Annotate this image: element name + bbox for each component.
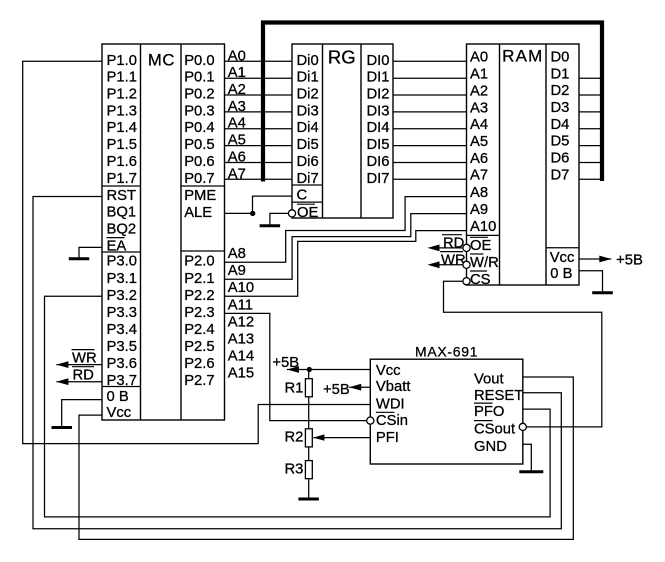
pin label P1.3	[107, 103, 137, 119]
wire RAM 0V to ground	[579, 271, 603, 291]
wire DI0 from RG to RAM A0	[393, 60, 467, 62]
wire P2.3/A11 from MC to CSin of MAX-691	[225, 313, 367, 420]
svg-text:WR: WR	[441, 252, 466, 268]
wire P0.6/A6 from MC to RG Di6	[225, 162, 293, 164]
svg-text:P3.5: P3.5	[107, 339, 137, 355]
svg-text:A1: A1	[470, 67, 488, 83]
register RG block outline	[292, 44, 393, 218]
pin label P1.6	[107, 154, 137, 170]
svg-text:+5B: +5B	[272, 355, 299, 371]
wire P0.1/A1 from MC to RG Di1	[225, 77, 293, 79]
data bus (thick line) from RG inputs to RAM data pins	[263, 23, 602, 182]
pin label P0.1	[184, 70, 214, 86]
address label A7	[228, 166, 246, 182]
wire D1 from RAM to data bus	[579, 77, 602, 79]
ground at EA	[69, 255, 89, 259]
signal label WR (active low)	[440, 252, 466, 269]
pin label D3	[551, 100, 570, 116]
pin label A7 (RAM)	[470, 168, 488, 184]
address label A0	[228, 48, 246, 64]
svg-text:P3.1: P3.1	[107, 271, 137, 287]
pin label P1.2	[107, 87, 137, 103]
wire D2 from RAM to data bus	[579, 94, 602, 96]
pin label W/R of RAM (W active low)	[470, 254, 499, 271]
svg-text:BQ2: BQ2	[107, 222, 137, 238]
svg-text:P3.0: P3.0	[107, 254, 137, 270]
pin label A9 (RAM)	[470, 202, 488, 218]
svg-text:P1.0: P1.0	[107, 53, 137, 69]
pin label P2.2	[184, 288, 214, 304]
svg-text:W/R: W/R	[470, 255, 499, 271]
svg-text:DI1: DI1	[367, 70, 390, 86]
pin label P2.6	[184, 356, 214, 372]
wire DI4 from RG to RAM A4	[393, 128, 467, 130]
RAM block outline	[467, 44, 580, 285]
pin label A3 (RAM)	[470, 100, 488, 116]
wire P2.0/A8 from MC to RAM A8	[225, 197, 467, 263]
svg-text:MC: MC	[148, 51, 175, 70]
svg-text:GND: GND	[474, 439, 507, 455]
address label A5	[228, 133, 246, 149]
svg-text:P2.2: P2.2	[184, 288, 214, 304]
svg-text:Vcc: Vcc	[550, 250, 575, 266]
power label +5B (RAM Vcc)	[616, 253, 643, 269]
pin label DI2	[367, 87, 390, 103]
pin label P1.5	[107, 137, 137, 153]
pin circle CSout	[519, 423, 526, 430]
svg-text:EA: EA	[107, 238, 127, 254]
svg-text:P3.3: P3.3	[107, 305, 137, 321]
svg-text:P0.4: P0.4	[184, 120, 214, 136]
svg-text:A4: A4	[228, 116, 246, 132]
ground at RAM 0V	[592, 291, 613, 293]
pin label Di2	[297, 87, 319, 103]
svg-text:P2.5: P2.5	[184, 339, 214, 355]
pin label GND	[474, 439, 507, 455]
svg-text:P1.6: P1.6	[107, 154, 137, 170]
pin label BQ2	[107, 222, 137, 238]
svg-text:D7: D7	[551, 167, 570, 183]
pin label DI4	[367, 120, 390, 136]
pin label Vcc (MAX-691)	[376, 363, 401, 379]
svg-text:A10: A10	[470, 219, 496, 235]
wire RAM CS to MAX-691 CSout	[444, 281, 602, 427]
pin label P3.3	[107, 305, 137, 321]
pin label PME	[184, 188, 216, 204]
wire DI3 from RG to RAM A3	[393, 111, 467, 113]
wire R1 top to Vcc junction	[308, 370, 310, 379]
wire P2.2/A10 from MC to RAM A10	[225, 231, 467, 297]
supervisor U1 MAX-691 block outline	[370, 359, 523, 464]
svg-text:D2: D2	[551, 83, 570, 99]
svg-text:DI0: DI0	[367, 53, 390, 69]
svg-text:D1: D1	[551, 66, 570, 82]
pin label P0.4	[184, 120, 214, 136]
pin label Di0	[297, 53, 319, 69]
address label A10	[228, 280, 254, 296]
svg-text:P2.0: P2.0	[184, 254, 214, 270]
wire P0.5/A5 from MC to RG Di5	[225, 145, 293, 147]
pin label P2.5	[184, 339, 214, 355]
svg-text:A2: A2	[470, 83, 488, 99]
wire DI6 from RG to RAM A6	[393, 162, 467, 164]
wire RAM Vcc to +5V	[579, 256, 611, 263]
resistor R2	[305, 429, 312, 447]
pin label P0.5	[184, 137, 214, 153]
svg-text:A8: A8	[228, 246, 246, 262]
address label A1	[228, 65, 246, 81]
pin label CS of RAM (active low)	[470, 271, 491, 288]
pin label P1.4	[107, 120, 137, 136]
pin label A5 (RAM)	[470, 134, 488, 150]
svg-text:P1.5: P1.5	[107, 137, 137, 153]
address label A15	[228, 366, 254, 382]
svg-text:A1: A1	[228, 65, 246, 81]
svg-text:D0: D0	[551, 49, 570, 65]
pin label P3.4	[107, 322, 137, 338]
address label A6	[228, 150, 246, 166]
svg-text:Vbatt: Vbatt	[376, 379, 411, 395]
pin label OE of RAM (active low)	[470, 237, 492, 254]
svg-text:Di3: Di3	[297, 103, 319, 119]
pin label A6 (RAM)	[470, 151, 488, 167]
wire R2 bottom to R3 top	[308, 447, 310, 461]
pin label P3.5	[107, 339, 137, 355]
svg-text:DI6: DI6	[367, 154, 390, 170]
svg-text:R1: R1	[285, 381, 304, 397]
pin circle OE of RG	[288, 210, 295, 217]
svg-text:A2: A2	[228, 82, 246, 98]
svg-text:P1.7: P1.7	[107, 171, 137, 187]
svg-text:+5B: +5B	[616, 253, 643, 269]
svg-text:A10: A10	[228, 280, 254, 296]
pin circle CS of RAM	[463, 278, 470, 285]
label R3	[285, 462, 304, 478]
svg-text:PME: PME	[184, 188, 216, 204]
wire OE of RG to ground	[270, 213, 289, 221]
pin label P0.6	[184, 154, 214, 170]
svg-text:Vcc: Vcc	[107, 405, 132, 421]
pin label P1.7	[107, 171, 137, 187]
svg-text:A13: A13	[228, 332, 254, 348]
pin label P3.7	[107, 373, 137, 389]
wire GND of MAX-691 to ground	[523, 444, 532, 468]
svg-text:A3: A3	[470, 100, 488, 116]
pin label P2.3	[184, 305, 214, 321]
svg-text:WDI: WDI	[376, 396, 405, 412]
pin label DI3	[367, 103, 390, 119]
svg-text:P0.1: P0.1	[184, 70, 214, 86]
svg-text:P0.7: P0.7	[184, 171, 214, 187]
svg-text:P1.4: P1.4	[107, 120, 137, 136]
svg-text:A5: A5	[470, 134, 488, 150]
pin label P0.7	[184, 171, 214, 187]
svg-text:OE: OE	[297, 205, 319, 221]
wire P0.0/A0 from MC to RG Di0	[225, 60, 293, 62]
pin label 0 V (MC)	[107, 389, 129, 405]
address label A3	[228, 99, 246, 115]
svg-text:A6: A6	[470, 151, 488, 167]
pin label Di5	[297, 137, 319, 153]
pin label EA (active low)	[107, 238, 127, 255]
ground at RG OE	[260, 222, 281, 226]
pin label Di1	[297, 70, 319, 86]
wire stub RD to RAM OE with arrow	[428, 245, 463, 252]
svg-text:P2.6: P2.6	[184, 356, 214, 372]
wire DI1 from RG to RAM A1	[393, 77, 467, 79]
svg-text:DI7: DI7	[367, 171, 390, 187]
pin label BQ1	[107, 205, 137, 221]
pin label D0	[551, 49, 570, 65]
svg-text:CSout: CSout	[474, 421, 515, 437]
svg-text:D3: D3	[551, 100, 570, 116]
ground at MAX-691 GND	[519, 469, 543, 472]
address label A8	[228, 246, 246, 262]
RAM title	[502, 47, 543, 66]
pin label ALE	[184, 205, 212, 221]
wire MC Vcc to Vout of MAX-691	[79, 377, 573, 539]
svg-text:RD: RD	[443, 236, 464, 252]
svg-text:A4: A4	[470, 117, 488, 133]
address label A11	[228, 297, 253, 313]
pin label P3.1	[107, 271, 137, 287]
pin circle W/R of RAM	[463, 261, 470, 268]
pin label P2.4	[184, 322, 214, 338]
pin label Vbatt	[376, 379, 411, 395]
svg-text:R2: R2	[285, 430, 304, 446]
svg-text:P2.1: P2.1	[184, 271, 214, 287]
MC title	[148, 51, 175, 70]
power label +5B (MAX Vcc)	[272, 355, 299, 371]
svg-text:CS: CS	[470, 272, 491, 288]
MAX-691 title	[415, 343, 478, 359]
pin label P3.6	[107, 356, 137, 372]
wire D3 from RAM to data bus	[579, 111, 602, 113]
pin label PFO (active low)	[474, 403, 504, 420]
svg-text:Di6: Di6	[297, 154, 319, 170]
address label A2	[228, 82, 246, 98]
pin label A10 (RAM)	[470, 219, 496, 235]
svg-text:A3: A3	[228, 99, 246, 115]
wire stub WR to RAM W/R with arrow	[428, 261, 463, 268]
svg-text:Di0: Di0	[297, 53, 319, 69]
svg-text:DI5: DI5	[367, 137, 390, 153]
svg-text:Di7: Di7	[297, 171, 319, 187]
svg-text:A5: A5	[228, 133, 246, 149]
svg-text:Vout: Vout	[474, 371, 504, 387]
power label +5B (Vbatt)	[323, 382, 350, 398]
svg-text:DI2: DI2	[367, 87, 390, 103]
svg-text:D6: D6	[551, 151, 570, 167]
pin label Di3	[297, 103, 319, 119]
pin circle CSin	[367, 417, 374, 424]
pin label D5	[551, 134, 570, 150]
svg-text:OE: OE	[470, 238, 492, 254]
svg-text:0 B: 0 B	[550, 266, 572, 282]
pin label D6	[551, 151, 570, 167]
svg-text:P3.7: P3.7	[107, 373, 137, 389]
svg-text:P1.1: P1.1	[107, 70, 137, 86]
signal label RD at MC (active low)	[72, 367, 94, 384]
pin label A8 (RAM)	[470, 185, 488, 201]
pin label D2	[551, 83, 570, 99]
pin label Vcc (RAM)	[550, 250, 575, 266]
svg-text:D4: D4	[551, 117, 570, 133]
wire P2.1/A9 from MC to RAM A9	[225, 214, 467, 280]
address label A4	[228, 116, 246, 132]
svg-text:A7: A7	[470, 168, 488, 184]
pin label RESET	[474, 388, 523, 404]
pin circle OE of RAM	[463, 244, 470, 251]
svg-text:Vcc: Vcc	[376, 363, 401, 379]
wire ALE to C of RG	[225, 196, 293, 213]
pin label A2 (RAM)	[470, 83, 488, 99]
pin label P0.3	[184, 103, 214, 119]
svg-text:P0.2: P0.2	[184, 87, 214, 103]
pin label A1 (RAM)	[470, 67, 488, 83]
pin label A4 (RAM)	[470, 117, 488, 133]
resistor R1	[305, 379, 312, 397]
ground at MC 0V	[52, 424, 73, 427]
wire Vbatt to +5V	[349, 384, 370, 391]
pin label P0.2	[184, 87, 214, 103]
pin label DI1	[367, 70, 390, 86]
svg-text:P0.3: P0.3	[184, 103, 214, 119]
wire D7 from RAM to data bus	[579, 178, 602, 180]
wire R1 bottom to R2 top	[308, 397, 310, 429]
pin label D7	[551, 167, 570, 183]
svg-text:D5: D5	[551, 134, 570, 150]
pin label PFI	[376, 430, 399, 446]
svg-text:A11: A11	[228, 297, 253, 313]
wire RST to RESET of MAX-691	[33, 197, 561, 529]
svg-text:A0: A0	[228, 48, 246, 64]
svg-text:A14: A14	[228, 349, 254, 365]
pin label OE of RG (active low)	[297, 204, 319, 221]
svg-text:Di5: Di5	[297, 137, 319, 153]
junction dot at R1 top	[307, 367, 312, 372]
svg-text:CSin: CSin	[376, 413, 408, 429]
address label A14	[228, 349, 254, 365]
svg-text:RG: RG	[328, 47, 356, 68]
svg-text:A6: A6	[228, 150, 246, 166]
pin label P1.1	[107, 70, 137, 86]
ground at R3	[298, 498, 319, 500]
svg-text:+5B: +5B	[323, 382, 350, 398]
wire stub RD from P3.7 with arrow	[56, 378, 102, 385]
svg-text:RST: RST	[107, 188, 137, 204]
svg-text:P2.3: P2.3	[184, 305, 214, 321]
wire PFI to R1-R2 divider with arrow	[313, 434, 370, 440]
svg-text:Di1: Di1	[297, 70, 319, 86]
svg-text:P0.5: P0.5	[184, 137, 214, 153]
svg-text:RD: RD	[73, 368, 94, 384]
wire D5 from RAM to data bus	[579, 145, 602, 147]
pin label P3.2	[107, 288, 137, 304]
wire DI2 from RG to RAM A2	[393, 94, 467, 96]
wire DI7 from RG to RAM A7	[393, 178, 467, 180]
pin label WDI	[376, 396, 405, 412]
pin label P2.7	[184, 373, 214, 389]
svg-text:DI4: DI4	[367, 120, 390, 136]
svg-text:DI3: DI3	[367, 103, 390, 119]
svg-text:P3.6: P3.6	[107, 356, 137, 372]
svg-text:P3.4: P3.4	[107, 322, 137, 338]
pin label P1.0	[107, 53, 137, 69]
pin label RST	[107, 188, 137, 204]
pin label Vcc (MC)	[107, 405, 132, 421]
pin label A0 (RAM)	[470, 50, 488, 66]
svg-text:BQ1: BQ1	[107, 205, 137, 221]
pin label Di7	[297, 171, 319, 187]
wire R3 bottom to ground	[308, 479, 310, 498]
pin label D4	[551, 117, 570, 133]
svg-text:0 B: 0 B	[107, 389, 129, 405]
svg-text:P2.4: P2.4	[184, 322, 214, 338]
signal label RD (active low)	[442, 235, 464, 252]
svg-text:P2.7: P2.7	[184, 373, 214, 389]
wire stub WR from P3.6 with arrow	[56, 361, 102, 368]
pin label DI0	[367, 53, 390, 69]
pin label P2.1	[184, 271, 214, 287]
junction dot on ALE wire	[250, 211, 255, 216]
svg-text:RESET: RESET	[474, 388, 523, 404]
wire MC 0V to ground	[62, 400, 102, 425]
svg-text:RAM: RAM	[502, 47, 543, 66]
pin label P3.0	[107, 254, 137, 270]
pin label C	[297, 188, 308, 204]
pin label P2.0	[184, 254, 214, 270]
svg-text:C: C	[297, 188, 308, 204]
svg-text:MAX-691: MAX-691	[415, 343, 478, 359]
wire P3.2 to PFO of MAX-691	[45, 296, 551, 517]
svg-text:R3: R3	[285, 462, 304, 478]
wire Vcc of MAX-691 to +5V with junction	[287, 366, 370, 373]
pin label P0.0	[184, 53, 214, 69]
svg-text:A7: A7	[228, 166, 246, 182]
svg-text:P0.0: P0.0	[184, 53, 214, 69]
label R2	[285, 430, 304, 446]
pin label DI6	[367, 154, 390, 170]
wire DI5 from RG to RAM A5	[393, 145, 467, 147]
pin label Vout	[474, 371, 504, 387]
wire P0.7/A7 from MC to RG Di7	[225, 178, 293, 180]
wire D6 from RAM to data bus	[579, 162, 602, 164]
svg-text:PFI: PFI	[376, 430, 399, 446]
pin label DI5	[367, 137, 390, 153]
svg-text:P3.2: P3.2	[107, 288, 137, 304]
resistor R3	[305, 461, 312, 479]
svg-text:A0: A0	[470, 50, 488, 66]
microcontroller MC block outline	[102, 44, 225, 420]
wire P0.4/A4 from MC to RG Di4	[225, 128, 293, 130]
svg-text:Di4: Di4	[297, 120, 319, 136]
address label A12	[228, 314, 254, 330]
svg-text:P1.2: P1.2	[107, 87, 137, 103]
svg-text:PFO: PFO	[474, 404, 504, 420]
wire P1.0 to WDI of MAX-691	[23, 61, 371, 443]
svg-text:P0.6: P0.6	[184, 154, 214, 170]
pin label CSin (active low)	[376, 412, 408, 429]
svg-text:Di2: Di2	[297, 87, 319, 103]
address label A9	[228, 263, 246, 279]
pin label CSout (active low)	[474, 421, 515, 438]
wire EA to ground	[79, 247, 102, 254]
pin label Di4	[297, 120, 319, 136]
pin label 0 V (RAM)	[550, 266, 572, 282]
svg-text:WR: WR	[72, 350, 97, 366]
address label A13	[228, 332, 254, 348]
